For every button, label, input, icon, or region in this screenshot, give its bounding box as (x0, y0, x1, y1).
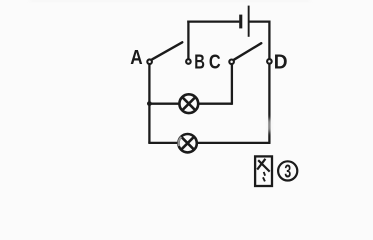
scan dropout on right wire (268, 119, 272, 132)
scan speckle strip top (30, 0, 310, 2)
terminal D (267, 59, 272, 64)
switch S2 blade (C-D, open) (234, 43, 261, 60)
wire middle vertical (mid corner up to C terminal) (231, 65, 233, 105)
terminal A (147, 59, 152, 64)
figure caption: character Tu (drawn) (255, 156, 272, 186)
switch S1 blade (A-B, open) (152, 42, 182, 59)
svg-text:A: A (130, 47, 142, 69)
terminal B (186, 59, 191, 64)
battery BT1 short plate (negative) (239, 15, 242, 29)
lamp L2 (178, 134, 196, 152)
junction node (A branch split) (147, 101, 152, 106)
wire top-right horizontal (battery to D corner) (249, 20, 270, 22)
svg-text:3: 3 (284, 162, 291, 182)
svg-text:D: D (274, 51, 288, 73)
figure caption: circled 3 (278, 161, 297, 180)
wire middle horizontal (junction through lamp L1 to mid corner) (149, 103, 232, 105)
wire right vertical (D terminal down to bottom corner) (268, 64, 270, 142)
wire top-left horizontal (B corner to battery) (187, 20, 239, 22)
svg-text:C: C (209, 52, 221, 74)
wire bottom horizontal (bottom-left corner through lamp L2 to bottom-right corner) (148, 142, 270, 144)
lamp L1 (179, 94, 198, 113)
wire left vertical (top corner down to B terminal) (187, 21, 189, 59)
svg-text:B: B (194, 52, 205, 74)
battery BT1 long plate (positive) (248, 6, 250, 37)
wire right vertical (top corner down to D terminal) (268, 21, 270, 59)
terminal C (229, 60, 234, 65)
wire left vertical (A terminal down to bottom corner) (148, 64, 150, 142)
